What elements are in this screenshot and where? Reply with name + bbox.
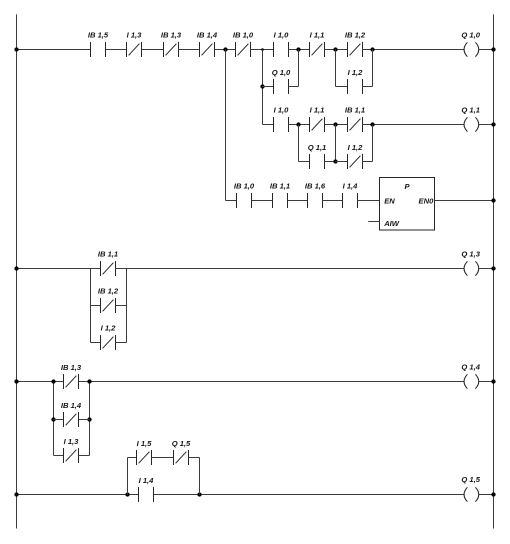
svg-text:IB 1,1: IB 1,1 [98, 249, 118, 258]
svg-text:IB 1,1: IB 1,1 [270, 181, 290, 190]
svg-text:I 1,4: I 1,4 [343, 181, 359, 190]
svg-text:Q 1,0: Q 1,0 [272, 68, 291, 77]
svg-text:IB 1,2: IB 1,2 [345, 30, 366, 39]
svg-text:I 1,1: I 1,1 [310, 105, 325, 114]
svg-text:I 1,1: I 1,1 [310, 30, 325, 39]
svg-text:I 1,3: I 1,3 [64, 437, 80, 446]
svg-text:IB 1,4: IB 1,4 [61, 401, 82, 410]
svg-text:EN0: EN0 [419, 196, 435, 205]
svg-text:Q 1,5: Q 1,5 [461, 475, 480, 484]
svg-text:IB 1,6: IB 1,6 [305, 181, 326, 190]
svg-text:I 1,2: I 1,2 [348, 143, 364, 152]
svg-text:Q 1,1: Q 1,1 [308, 143, 327, 152]
svg-text:I 1,2: I 1,2 [101, 323, 117, 332]
svg-text:IB 1,0: IB 1,0 [234, 181, 255, 190]
svg-text:I 1,3: I 1,3 [127, 30, 143, 39]
svg-text:IB 1,4: IB 1,4 [197, 30, 218, 39]
svg-text:EN: EN [384, 196, 395, 205]
svg-text:IB 1,3: IB 1,3 [161, 30, 182, 39]
svg-text:IB 1,3: IB 1,3 [61, 363, 82, 372]
svg-text:P: P [404, 182, 410, 191]
svg-text:Q 1,0: Q 1,0 [461, 30, 480, 39]
svg-text:IB 1,2: IB 1,2 [98, 286, 119, 295]
svg-text:Q 1,3: Q 1,3 [461, 249, 480, 258]
svg-text:IB 1,1: IB 1,1 [345, 105, 365, 114]
svg-text:I 1,2: I 1,2 [348, 68, 364, 77]
svg-text:AIW: AIW [383, 219, 400, 228]
svg-text:I 1,0: I 1,0 [274, 105, 290, 114]
svg-text:Q 1,5: Q 1,5 [172, 439, 191, 448]
svg-text:I 1,5: I 1,5 [137, 439, 153, 448]
svg-text:Q 1,1: Q 1,1 [461, 105, 480, 114]
svg-text:I 1,4: I 1,4 [139, 476, 155, 485]
svg-text:IB 1,0: IB 1,0 [233, 30, 254, 39]
svg-text:I 1,0: I 1,0 [274, 30, 290, 39]
svg-text:Q 1,4: Q 1,4 [461, 362, 480, 371]
svg-text:IB 1,5: IB 1,5 [88, 30, 109, 39]
